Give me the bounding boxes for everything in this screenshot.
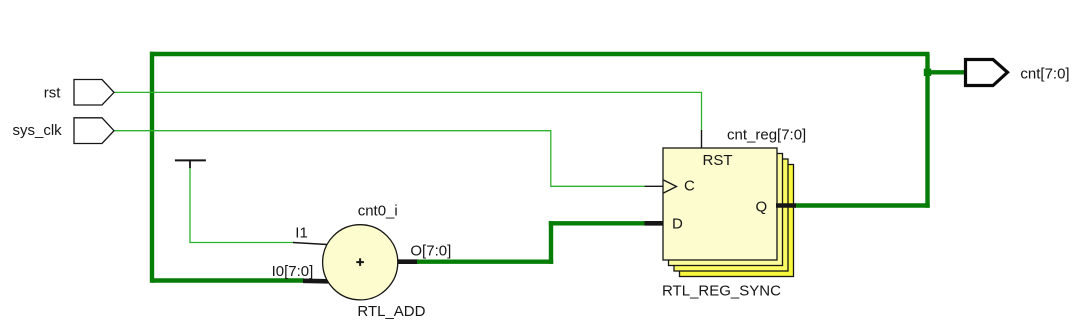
wire net sys_clk: horizontal to C pin	[551, 185, 645, 187]
pin stub I1 (adder)	[293, 243, 327, 245]
wire net O: horizontal from adder O	[417, 260, 553, 264]
clock input triangle on C pin	[664, 180, 677, 193]
svg-text:cnt_reg[7:0]: cnt_reg[7:0]	[727, 127, 806, 144]
register cnt_reg[7:0] stacked sheet 4	[680, 165, 794, 277]
svg-text:C: C	[684, 177, 695, 194]
svg-text:cnt0_i: cnt0_i	[358, 203, 398, 220]
output port cnt[7:0]	[966, 60, 1008, 86]
wire net cnt: left vertical segment of feedback bus	[150, 52, 154, 283]
svg-text:RTL_REG_SYNC: RTL_REG_SYNC	[662, 282, 781, 299]
svg-text:O[7:0]: O[7:0]	[410, 243, 451, 260]
input port sys_clk	[74, 118, 114, 144]
pin stub O (adder)	[396, 259, 419, 264]
wire net O: horizontal to D pin	[549, 221, 646, 225]
wire net O: vertical segment	[549, 221, 553, 264]
wire net rst: vertical down to RST pin	[701, 92, 703, 130]
plus sign inside adder	[356, 258, 364, 266]
svg-text:rst: rst	[44, 85, 61, 102]
wire net const: horizontal to adder I1	[190, 242, 294, 244]
svg-text:I1: I1	[295, 225, 308, 242]
svg-text:sys_clk: sys_clk	[13, 122, 63, 139]
register cnt_reg[7:0] stacked sheet 3	[674, 159, 788, 271]
junction on net cnt	[924, 69, 931, 76]
pin stub D (register)	[645, 221, 664, 226]
adder U cnt0_i RTL_ADD body	[323, 225, 398, 300]
wire net const: vertical from constant symbol	[189, 168, 191, 243]
wire net cnt: right vertical segment from Q	[925, 54, 929, 208]
register U cnt_reg[7:0] RTL_REG_SYNC body	[663, 148, 777, 260]
svg-text:RST: RST	[703, 152, 733, 169]
wire net cnt: horizontal segment from Q pin	[795, 203, 930, 207]
svg-text:I0[7:0]: I0[7:0]	[272, 263, 314, 280]
svg-text:RTL_ADD: RTL_ADD	[357, 303, 425, 320]
wire net rst: horizontal from rst port	[114, 91, 702, 93]
pin stub C (register)	[645, 185, 664, 187]
wire net cnt: top horizontal segment of feedback bus	[150, 52, 930, 56]
svg-text:D: D	[672, 216, 683, 233]
pin stub I0 (adder)	[303, 278, 328, 283]
register cnt_reg[7:0] stacked sheet 2	[669, 154, 783, 266]
wire net sys_clk: horizontal from sys_clk port	[114, 130, 551, 132]
pin stub Q (register)	[776, 203, 796, 208]
wire net sys_clk: vertical segment	[550, 131, 552, 187]
pin stub RST (register)	[701, 130, 703, 148]
wire net cnt: branch to output port	[928, 70, 965, 74]
svg-text:cnt[7:0]: cnt[7:0]	[1020, 65, 1069, 82]
wire net cnt: bottom horizontal segment to adder I0	[152, 278, 304, 282]
input port rst	[74, 80, 114, 106]
svg-text:Q: Q	[756, 198, 768, 215]
constant driver symbol (tie-off for adder I1)	[175, 160, 206, 168]
